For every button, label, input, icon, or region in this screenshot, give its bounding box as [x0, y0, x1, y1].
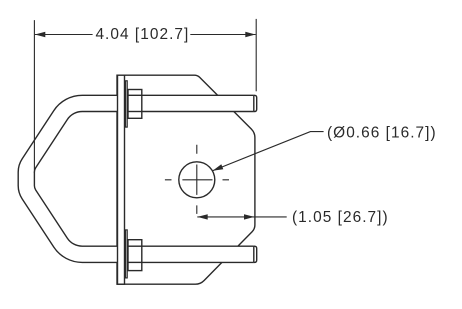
dim 1.05 line — [197, 216, 286, 218]
crossbar — [118, 75, 125, 284]
svg-text:4.04 [102.7]: 4.04 [102.7] — [95, 26, 189, 43]
dim 4.04 left extension line — [33, 20, 35, 173]
svg-text:(Ø0.66 [16.7]): (Ø0.66 [16.7]) — [327, 125, 437, 142]
center mark — [165, 145, 229, 214]
nut — [128, 90, 142, 119]
nut — [128, 240, 142, 271]
leader — [213, 132, 324, 171]
dim 4.04 line left segment — [35, 34, 93, 36]
dim 1.05 right arrowhead — [244, 214, 254, 219]
rod end cap — [254, 246, 257, 262]
washer — [126, 81, 128, 127]
plate — [117, 75, 255, 284]
rod end cap — [254, 95, 257, 111]
dim 4.04 line right segment — [190, 34, 255, 36]
leader arrowhead — [213, 164, 224, 170]
svg-text:(1.05 [26.7]): (1.05 [26.7]) — [292, 209, 389, 226]
washer — [126, 230, 128, 278]
V-bolt interior (white fill stroke) — [26, 103, 254, 254]
dim 4.04 right arrowhead — [245, 32, 255, 37]
dim 1.05 left arrowhead — [197, 214, 207, 219]
hole — [179, 162, 215, 198]
dim 4.04 left arrowhead — [35, 32, 45, 37]
V-bolt outline (black stroke) — [26, 103, 254, 254]
dim 4.04 right extension line — [255, 19, 257, 91]
